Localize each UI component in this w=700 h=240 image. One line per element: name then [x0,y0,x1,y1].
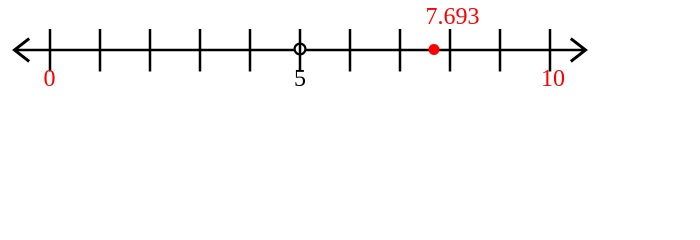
tick 0 [49,29,52,72]
tick 2 [149,29,152,72]
red point at 7.693 [429,44,440,55]
svg-text:7.693: 7.693 [426,4,480,30]
tick 5 (drawn over circle) [299,29,302,72]
tick 3 [199,29,202,72]
svg-text:10: 10 [541,66,565,92]
left arrowhead [15,40,29,61]
tick 6 [349,29,352,72]
tick 7 [399,29,402,72]
tick 8 [449,29,452,72]
tick 10 [549,29,552,72]
open circle at 5 [295,44,306,55]
tick 4 [249,29,252,72]
tick 1 [99,29,102,72]
svg-text:5: 5 [294,66,306,92]
right arrowhead [572,40,586,61]
tick 9 [499,29,502,72]
svg-text:0: 0 [44,66,56,92]
number line axis [15,49,585,52]
